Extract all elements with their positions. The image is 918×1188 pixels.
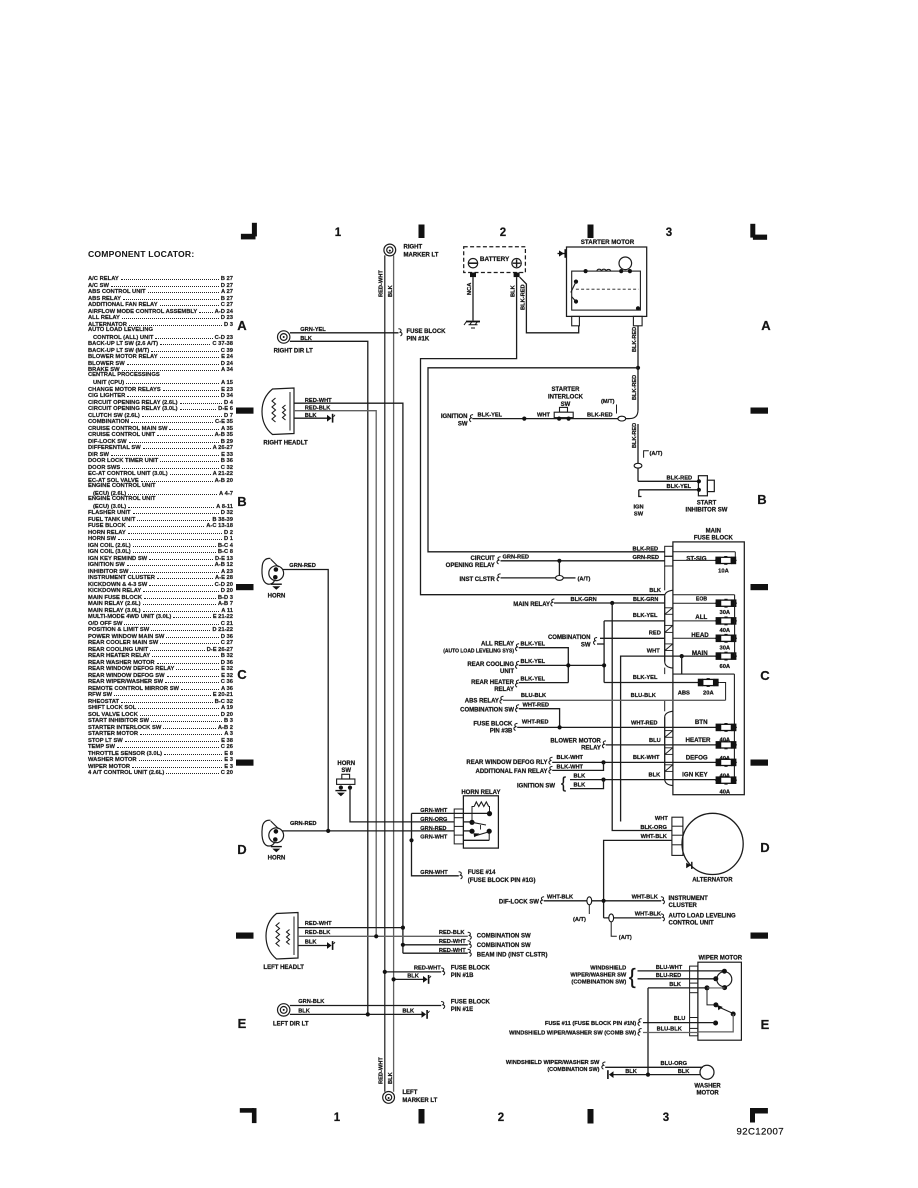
fuse block ST-SIG connector tabs (665, 546, 673, 556)
svg-text:BLK-GRN: BLK-GRN (633, 597, 658, 603)
svg-text:BLK: BLK (305, 940, 318, 946)
fuse block upper connector tab column (665, 590, 673, 668)
svg-text:BLK-YEL: BLK-YEL (521, 659, 546, 665)
svg-text:BTN: BTN (695, 719, 708, 726)
svg-text:UNIT: UNIT (500, 669, 514, 675)
svg-text:COMBINATION SW: COMBINATION SW (477, 943, 531, 949)
junction dif-lock / alternator branch (602, 899, 606, 903)
row divider dash right (751, 584, 769, 590)
svg-text:3: 3 (663, 1112, 669, 1124)
tab hatch (665, 731, 673, 738)
svg-text:30A: 30A (719, 646, 730, 652)
svg-text:(FUSE BLOCK PIN #1G): (FUSE BLOCK PIN #1G) (468, 878, 536, 884)
column tick top 1-2 (419, 225, 425, 239)
svg-text:FUSE #14: FUSE #14 (468, 870, 496, 876)
bracket auto load leveling (661, 914, 665, 921)
connector oval M/T (618, 416, 626, 421)
svg-text:(A/T): (A/T) (573, 917, 586, 923)
junction trio a (566, 663, 570, 667)
row divider dash right (751, 408, 769, 414)
lamp LEFT HEADLT (266, 913, 298, 960)
wire BLK-RED starter trunk down (637, 326, 639, 410)
wire BLU to wiper motor (643, 1022, 716, 1024)
svg-text:1: 1 (335, 227, 342, 239)
junction blk dir trunk (366, 1012, 370, 1016)
junction marker trunk pin1B (383, 970, 387, 974)
svg-text:BLK-YEL: BLK-YEL (633, 675, 658, 681)
svg-text:WHT-BLK: WHT-BLK (641, 834, 668, 840)
wire GRN-RED horns to horn relay (282, 830, 454, 832)
svg-text:WHT: WHT (647, 648, 660, 654)
svg-text:BLK: BLK (300, 336, 313, 342)
bracket fuse 11 (638, 1019, 642, 1026)
svg-text:BLU-BLK: BLU-BLK (657, 1026, 683, 1032)
svg-text:RED-BLK: RED-BLK (305, 406, 331, 412)
svg-text:BLOWER MOTOR: BLOWER MOTOR (550, 738, 601, 744)
svg-text:MARKER LT: MARKER LT (404, 252, 439, 258)
wire WHT-BLK alternator down (604, 840, 672, 918)
svg-text:WINDSHIELD: WINDSHIELD (590, 966, 626, 972)
row divider dash right (751, 933, 769, 939)
svg-text:BATTERY: BATTERY (480, 256, 510, 263)
svg-text:(A/T): (A/T) (578, 576, 591, 582)
svg-text:(AUTO LOAD LEVELING SYS): (AUTO LOAD LEVELING SYS) (443, 649, 514, 655)
svg-text:COMBINATION SW: COMBINATION SW (460, 708, 514, 714)
bracket rear window defog rly (549, 757, 553, 764)
svg-text:STARTER MOTOR: STARTER MOTOR (581, 239, 635, 246)
bracket instrument cluster (661, 897, 665, 904)
wire RED combination to HEAD fuse (600, 637, 665, 639)
svg-text:ST-SIG: ST-SIG (686, 555, 706, 562)
svg-text:COMBINATION SW: COMBINATION SW (477, 933, 531, 939)
starter motor armature circle (619, 257, 632, 270)
wire BLK-YEL to ABS fuse (604, 682, 698, 684)
wire RED-BLK right headlt down trunk T2 (294, 411, 376, 937)
svg-text:1: 1 (334, 1112, 341, 1124)
svg-text:RED-BLK: RED-BLK (439, 930, 465, 936)
svg-text:BLU-BLK: BLU-BLK (521, 693, 547, 699)
svg-text:3: 3 (666, 227, 672, 239)
bracket ignition sw (469, 415, 473, 422)
junction wht-red (558, 725, 562, 729)
junction MAIN row to ABS (680, 654, 684, 658)
connector strip segment below upper group (664, 668, 666, 675)
junction riser (409, 838, 413, 842)
row divider dash left (236, 933, 254, 939)
bracket washer sw (602, 1062, 606, 1069)
wire branch to inst clstr oval (558, 561, 560, 575)
svg-text:A: A (237, 318, 247, 333)
svg-text:DEFOG: DEFOG (686, 755, 708, 762)
svg-text:92C12007: 92C12007 (737, 1127, 784, 1138)
svg-text:40A: 40A (719, 628, 730, 634)
svg-text:BLK: BLK (649, 772, 662, 778)
svg-text:WHT-BLK: WHT-BLK (635, 912, 662, 918)
wire BLK-WHT additional fan relay (552, 762, 603, 770)
component locator heading (88, 249, 194, 259)
svg-text:HEAD: HEAD (691, 632, 709, 639)
junction blk-wht pair (601, 760, 605, 764)
row wire GRN-RED inside to fuse (673, 559, 716, 561)
svg-text:PIN #1E: PIN #1E (451, 1007, 473, 1013)
battery positive terminal symbol (512, 259, 521, 268)
svg-text:SW: SW (561, 402, 571, 408)
wire BLK-YEL rear heater (519, 682, 569, 684)
bracket all relay (515, 644, 519, 651)
registration mark bottom-left (240, 1108, 254, 1113)
fuse F3 40A (715, 620, 737, 622)
svg-text:10A: 10A (718, 569, 729, 575)
connector oval inst clstr A/T (556, 576, 564, 581)
svg-text:MAIN: MAIN (692, 650, 708, 657)
wiper park switch (713, 1002, 718, 1007)
svg-text:BLK: BLK (574, 782, 587, 788)
wire GRN-RED inst clstr (501, 577, 556, 579)
svg-text:MAIN: MAIN (706, 528, 721, 534)
wire BLK right headlt to ground pin (294, 417, 327, 419)
svg-text:DIF-LOCK SW: DIF-LOCK SW (499, 899, 539, 905)
svg-text:20A: 20A (703, 691, 714, 697)
svg-text:BLK: BLK (305, 413, 318, 419)
fuse F2 30A (715, 602, 737, 604)
fuse F8 HEATER 40A (715, 744, 737, 746)
svg-text:GRN-ORG: GRN-ORG (420, 817, 447, 823)
svg-text:ADDITIONAL FAN RELAY: ADDITIONAL FAN RELAY (475, 769, 547, 775)
svg-text:LEFT: LEFT (402, 1090, 417, 1096)
svg-text:WHT: WHT (537, 413, 550, 419)
ground horn H2 (271, 846, 282, 848)
tab hatch (665, 765, 673, 772)
row divider dash right (751, 760, 769, 766)
svg-text:PIN #1K: PIN #1K (407, 336, 430, 342)
svg-text:RIGHT: RIGHT (404, 245, 423, 251)
svg-text:GRN-BLK: GRN-BLK (298, 999, 325, 1005)
svg-text:PIN #1B: PIN #1B (451, 973, 474, 979)
battery negative terminal symbol (468, 259, 477, 268)
svg-text:AUTO LOAD LEVELING: AUTO LOAD LEVELING (669, 913, 737, 919)
bracket fuse block pin 1B (441, 968, 445, 975)
relay armature (472, 822, 486, 825)
svg-text:MAIN RELAY: MAIN RELAY (513, 602, 550, 608)
svg-text:D: D (237, 842, 246, 857)
bracket fuse block pin 1E (441, 1002, 445, 1009)
starter terminal B (633, 316, 642, 325)
starter motor inner frame (572, 271, 641, 310)
svg-text:BLK-WHT: BLK-WHT (557, 765, 584, 771)
svg-text:RED-WHT: RED-WHT (439, 939, 466, 945)
svg-text:C: C (237, 667, 247, 682)
svg-text:BLK-YEL: BLK-YEL (521, 641, 546, 647)
svg-text:BLK: BLK (669, 982, 682, 988)
wire WHT to MAIN fuse (621, 656, 716, 821)
svg-text:WHT-BLK: WHT-BLK (547, 894, 574, 900)
junction relay coil 86 (469, 820, 474, 825)
wire BLK-YEL all relay (519, 648, 569, 683)
svg-text:PIN #3B: PIN #3B (490, 729, 513, 735)
wire GRN-RED horn H1 to junction (282, 570, 328, 831)
horn H1 (262, 558, 274, 584)
wire GRN-BLK left dir lt to fuse block pin 1E (290, 1005, 441, 1007)
ground pin left dir lt (422, 1011, 427, 1018)
wire BLK-WHT to DEFOG fuse (552, 761, 715, 763)
svg-text:BLK-YEL: BLK-YEL (478, 413, 503, 419)
wire BLU blower relay to HEATER fuse (606, 744, 716, 746)
lamp RIGHT MARKER LT (384, 244, 396, 256)
horn H2 (262, 820, 274, 846)
horn relay coil leads (472, 807, 474, 823)
wire BLK-RED branch to ST-SIG fuse (428, 368, 665, 552)
wire BLK-YEL ign sw to start inhibitor sw (639, 489, 699, 491)
junction relay 87a (469, 829, 474, 834)
svg-text:WINDSHIELD WIPER/WASHER SW: WINDSHIELD WIPER/WASHER SW (506, 1060, 600, 1066)
svg-text:WINDSHIELD WIPER/WASHER SW (CO: WINDSHIELD WIPER/WASHER SW (COMB SW) (509, 1031, 636, 1037)
svg-text:RED-WHT: RED-WHT (414, 966, 441, 972)
bracket additional fan relay (549, 766, 553, 773)
svg-text:BLK: BLK (511, 284, 517, 297)
main fuse block body FB1 (673, 542, 744, 795)
svg-text:A: A (761, 318, 771, 333)
svg-text:SW: SW (581, 643, 591, 649)
svg-text:RED: RED (649, 631, 661, 637)
junction ignition wire (522, 417, 526, 421)
horn relay tab column (454, 809, 463, 844)
svg-text:BLK: BLK (388, 1071, 394, 1084)
svg-text:BLK: BLK (388, 284, 394, 297)
row wire ALL (673, 620, 716, 622)
junction red-blk trunk (374, 934, 378, 938)
wire WHT-BLK dif-lock row (544, 900, 661, 902)
svg-text:IGN: IGN (633, 505, 643, 511)
svg-text:WIPER MOTOR: WIPER MOTOR (699, 955, 743, 961)
svg-text:GRN-WHT: GRN-WHT (420, 835, 448, 841)
battery terminal lug positive (514, 273, 520, 278)
switch STARTER INTERLOCK SW (560, 407, 568, 412)
svg-text:ALL: ALL (695, 614, 707, 621)
svg-text:{: { (629, 966, 636, 989)
svg-text:NCA: NCA (467, 283, 473, 295)
svg-text:LEFT DIR LT: LEFT DIR LT (273, 1022, 309, 1028)
svg-text:BLU: BLU (674, 1016, 686, 1022)
svg-text:60A: 60A (719, 664, 730, 670)
svg-text:BLK: BLK (649, 588, 662, 594)
wire GRN-WHT 2 into relay (463, 839, 489, 841)
svg-text:WHT: WHT (655, 816, 668, 822)
svg-text:C: C (760, 668, 770, 683)
tab hatch (665, 748, 673, 755)
svg-text:IGNITION SW: IGNITION SW (517, 783, 555, 789)
fuse F9 DEFOG 40A (715, 761, 737, 763)
component locator list (88, 275, 233, 776)
column tick top 2-3 (588, 225, 594, 239)
starter motor M1 (567, 247, 647, 316)
lamp LEFT DIR LT (278, 1004, 290, 1016)
ground pin marker blk (423, 976, 428, 983)
svg-text:D: D (760, 840, 769, 855)
svg-text:(M/T): (M/T) (601, 399, 615, 405)
lamp LEFT MARKER LT (383, 1092, 395, 1104)
alternator diode mark (686, 863, 691, 869)
svg-text:GRN-WHT: GRN-WHT (420, 870, 448, 876)
wiper low speed dot (713, 1021, 718, 1026)
bracket abs relay (500, 696, 504, 703)
svg-text:FUSE BLOCK: FUSE BLOCK (473, 721, 513, 727)
svg-text:FUSE BLOCK: FUSE BLOCK (694, 535, 734, 541)
fuse block lower connector tab column (665, 711, 673, 785)
svg-text:IGN KEY: IGN KEY (682, 771, 708, 778)
svg-text:BLK-GRN: BLK-GRN (571, 597, 597, 603)
column tick bottom 2-3 (588, 1109, 594, 1124)
junction red-wht comb (401, 943, 405, 947)
wire BLK to wiper motor (648, 987, 707, 989)
filament left headlt low (287, 930, 290, 945)
junction trio b (602, 663, 606, 667)
motor WASHER MOTOR (700, 1065, 714, 1079)
svg-text:RED-WHT: RED-WHT (305, 921, 332, 927)
svg-text:BLK: BLK (574, 773, 587, 779)
filament left headlt high (276, 923, 280, 947)
svg-text:WHT-BLK: WHT-BLK (632, 894, 659, 900)
svg-text:REAR WINDOW DEFOG RLY: REAR WINDOW DEFOG RLY (466, 760, 547, 766)
wire GRN-RED into relay (463, 830, 472, 832)
svg-text:RED-WHT: RED-WHT (379, 1057, 385, 1084)
svg-text:RED-BLK: RED-BLK (305, 930, 331, 936)
wire RED-WHT to combination sw (403, 944, 468, 946)
wire RED-BLK left headlt to combination sw (298, 935, 468, 937)
row divider dash left (236, 760, 254, 766)
connector oval auto load A/T (609, 914, 614, 922)
wire RED-WHT right headlt down trunk T5 (294, 403, 403, 953)
filament right headlt high (272, 398, 276, 422)
svg-text:INTERLOCK: INTERLOCK (548, 395, 584, 401)
bracket combination sw a (468, 932, 472, 939)
connector strip segment ST-SIG to BLK (664, 566, 666, 590)
svg-text:BLU: BLU (649, 738, 661, 744)
wiper motor armature (717, 972, 732, 987)
fuse bus vertical upper (734, 595, 736, 656)
svg-text:HEATER: HEATER (686, 737, 712, 744)
svg-text:CONTROL UNIT: CONTROL UNIT (669, 920, 715, 926)
wire BLK ignition 2 (570, 780, 604, 789)
wire GRN-WHT 1 into relay (412, 812, 490, 814)
fuse F7 BTN 40A (715, 726, 737, 728)
ground pin right headlt (327, 415, 332, 422)
wire BLK left dir lt to ground pin (290, 1013, 422, 1015)
svg-text:BLK-RED: BLK-RED (667, 476, 693, 482)
svg-text:BLK: BLK (678, 1069, 691, 1075)
wire GRN-ORG into relay (463, 821, 472, 823)
bracket combination sw (593, 638, 597, 645)
registration mark top-left (252, 223, 257, 237)
svg-text:BLU-ORG: BLU-ORG (661, 1061, 688, 1067)
wire BLK-RED to start inhibitor sw (638, 480, 698, 482)
row wire E-OB (673, 602, 716, 604)
svg-text:SW: SW (458, 421, 468, 427)
svg-text:30A: 30A (719, 610, 730, 616)
svg-text:WHT-RED: WHT-RED (523, 703, 550, 709)
svg-text:ALTERNATOR: ALTERNATOR (692, 878, 733, 884)
wire ignition sw to starter trunk (472, 418, 629, 420)
junction relay contact 30 (487, 811, 492, 816)
ground pin washer (609, 1071, 614, 1078)
filament right headlt low (283, 405, 286, 420)
starter solenoid coil (597, 269, 611, 271)
svg-text:RED-WHT: RED-WHT (305, 398, 332, 404)
ground horn sw (335, 790, 346, 792)
wire BLU-ORG to washer motor (605, 1066, 703, 1068)
starter contact right dot (636, 306, 640, 310)
wire BLK-RED battery to starter motor (520, 277, 579, 333)
svg-text:B: B (757, 492, 766, 507)
svg-text:RIGHT DIR LT: RIGHT DIR LT (274, 349, 314, 355)
svg-text:B: B (237, 494, 246, 509)
svg-text:ABS: ABS (678, 691, 690, 697)
svg-text:LEFT HEADLT: LEFT HEADLT (263, 965, 304, 971)
wire WHT-RED to BTN fuse (517, 726, 715, 728)
tab hatch (665, 644, 673, 651)
junction relay 87 (487, 829, 492, 834)
wire BLK-ORG branch down to alternator (612, 603, 672, 831)
junction main relay / alternator branch (610, 601, 614, 605)
svg-text:BLK-WHT: BLK-WHT (633, 755, 660, 761)
svg-text:BLK-RED: BLK-RED (633, 546, 659, 552)
bracket fuse block pin 3B (514, 723, 518, 730)
junction blk trunk ground (392, 977, 396, 981)
ABS fuse enclosure top and bus to BTN (673, 673, 735, 675)
row wire HEAD (673, 637, 716, 639)
wire BLK washer ground (614, 1074, 701, 1076)
wire NCA battery to ground (472, 277, 474, 320)
wire BLK right dir lt down trunk T1 (290, 341, 368, 1014)
svg-text:REAR HEATER: REAR HEATER (471, 680, 515, 686)
fuse F5 60A (715, 655, 737, 657)
svg-text:BLK: BLK (298, 1009, 311, 1015)
svg-text:{: { (561, 775, 566, 792)
wire WHT-RED combination sw branch (519, 709, 560, 728)
svg-text:BLK-RED: BLK-RED (632, 423, 638, 448)
wire BLK-YEL combination to ALL fuse (604, 620, 665, 622)
bracket fuse block pin 1K (398, 329, 402, 336)
junction washer blk (646, 1073, 650, 1077)
svg-text:GRN-WHT: GRN-WHT (420, 808, 448, 814)
wiper internal blk (705, 985, 710, 990)
svg-text:BEAM IND (INST CLSTR): BEAM IND (INST CLSTR) (477, 952, 548, 958)
bracket beam ind (468, 949, 472, 956)
junction blk pair (601, 778, 605, 782)
wire BLK riser to washer ground (647, 988, 649, 1075)
wire BLU-RED to wiper motor (638, 978, 716, 980)
junction starter trunk / battery branch (636, 366, 640, 370)
horn relay coil (474, 802, 489, 807)
lamp RIGHT HEADLT (262, 388, 294, 435)
svg-text:BLK: BLK (407, 973, 420, 979)
svg-text:GRN-RED: GRN-RED (289, 563, 316, 569)
svg-text:2: 2 (500, 227, 506, 239)
wire BLK marker trunk to ground pin (394, 978, 423, 980)
svg-text:2: 2 (498, 1112, 504, 1124)
svg-text:(COMBINATION SW): (COMBINATION SW) (547, 1067, 599, 1073)
svg-text:FUSE BLOCK: FUSE BLOCK (451, 965, 491, 971)
svg-text:MOTOR: MOTOR (696, 1091, 719, 1097)
wire BLK trunk T4 right marker to left marker (393, 255, 395, 1091)
connector oval dif-lock A/T (587, 897, 592, 905)
column tick bottom 1-2 (419, 1109, 425, 1124)
wire BLK-YEL rear cooling (519, 664, 604, 666)
svg-text:EOB: EOB (696, 597, 707, 603)
svg-text:GRN-RED: GRN-RED (290, 821, 317, 827)
row wire BLK inside to fuse bus (673, 594, 735, 596)
svg-text:MARKER LT: MARKER LT (402, 1098, 437, 1104)
wire BLU-WHT to wiper motor (638, 970, 725, 972)
